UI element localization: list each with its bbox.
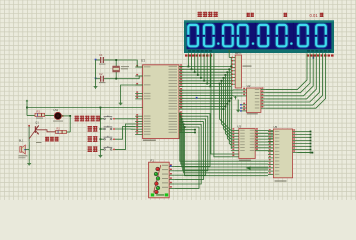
- svg-text:0.01: 0.01: [310, 13, 319, 18]
- svg-text:U2: U2: [247, 84, 251, 88]
- svg-text:BL1: BL1: [19, 139, 24, 143]
- svg-text:U5: U5: [273, 125, 277, 129]
- svg-text:U3: U3: [237, 124, 241, 128]
- svg-text:C2: C2: [99, 72, 103, 76]
- svg-text:U1: U1: [141, 58, 145, 62]
- svg-text:LS1: LS1: [54, 108, 59, 112]
- svg-text:Q1: Q1: [35, 120, 39, 124]
- svg-text:C1: C1: [99, 53, 103, 57]
- svg-text:RP1: RP1: [235, 51, 241, 55]
- svg-text:R2: R2: [57, 126, 61, 130]
- svg-text:P1: P1: [150, 158, 154, 162]
